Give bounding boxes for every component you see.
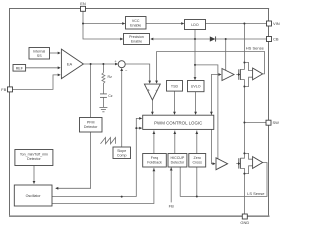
svg-text:REF: REF bbox=[16, 66, 24, 70]
svg-text:Internal: Internal bbox=[33, 50, 45, 54]
svg-text:EA: EA bbox=[67, 62, 73, 67]
svg-text:Detector: Detector bbox=[27, 157, 41, 161]
svg-text:CB: CB bbox=[273, 37, 279, 42]
svg-text:Oscillator: Oscillator bbox=[26, 194, 42, 198]
svg-text:VCC: VCC bbox=[132, 19, 140, 23]
svg-text:FB: FB bbox=[1, 87, 6, 92]
svg-text:Enable: Enable bbox=[131, 39, 142, 43]
svg-text:FB: FB bbox=[169, 204, 174, 209]
svg-text:Cz: Cz bbox=[108, 94, 113, 98]
svg-text:Enable: Enable bbox=[130, 23, 141, 27]
svg-text:HICCUP: HICCUP bbox=[171, 156, 185, 160]
svg-text:PFM: PFM bbox=[87, 120, 95, 124]
svg-text:GND: GND bbox=[240, 220, 249, 225]
svg-text:SW: SW bbox=[273, 120, 280, 125]
svg-text:HS Sense: HS Sense bbox=[246, 45, 265, 50]
svg-text:Ton_min/Toff_min: Ton_min/Toff_min bbox=[20, 153, 48, 157]
svg-text:Rz: Rz bbox=[108, 75, 113, 79]
svg-text:EN: EN bbox=[80, 1, 86, 6]
svg-text:SS: SS bbox=[37, 54, 42, 58]
svg-text:LDO: LDO bbox=[191, 23, 199, 27]
svg-text:Foldback: Foldback bbox=[147, 160, 162, 164]
svg-text:Detector: Detector bbox=[84, 125, 98, 129]
svg-text:UVLO: UVLO bbox=[191, 85, 201, 89]
svg-text:Zero: Zero bbox=[194, 156, 201, 160]
svg-text:TSD: TSD bbox=[171, 84, 179, 88]
svg-text:Comp: Comp bbox=[117, 154, 127, 158]
svg-text:VIN: VIN bbox=[273, 21, 280, 26]
svg-text:Detector: Detector bbox=[171, 160, 185, 164]
svg-text:Precision: Precision bbox=[129, 35, 144, 39]
svg-text:PWM CONTROL LOGIC: PWM CONTROL LOGIC bbox=[154, 120, 202, 125]
svg-text:Cross: Cross bbox=[193, 160, 203, 164]
svg-text:Freq: Freq bbox=[151, 156, 158, 160]
svg-text:LS Sense: LS Sense bbox=[247, 191, 265, 196]
svg-text:Slope: Slope bbox=[117, 149, 126, 153]
